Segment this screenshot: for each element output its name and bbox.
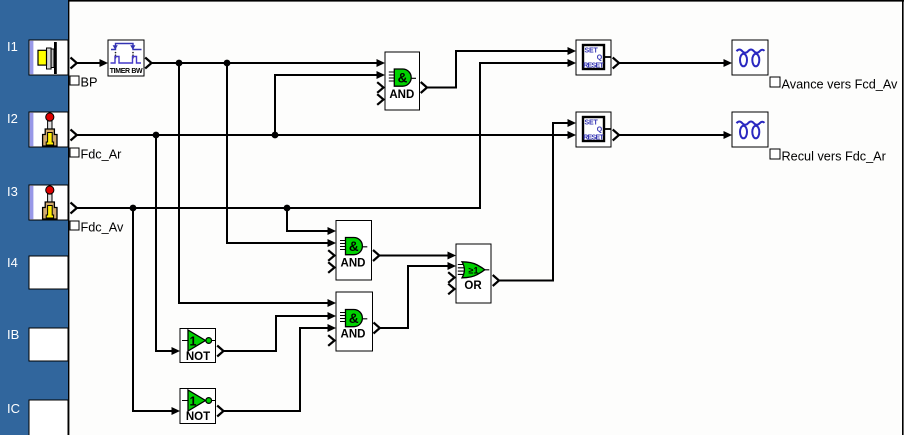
and-gate U1 unconnected input chevrons: [377, 82, 383, 105]
and-gate U2 unconnected input chevrons: [328, 250, 334, 273]
output coil O1: [732, 40, 768, 75]
svg-text:IB: IB: [7, 327, 19, 342]
node square for coil O2: [770, 149, 780, 159]
input I1 block: [29, 40, 68, 75]
wire AND1 out to SR1 SET: [427, 51, 569, 88]
arrowhead into SR1 SET: [568, 47, 577, 55]
and-gate U1 (top AND): [385, 52, 420, 110]
svg-text:I3: I3: [7, 184, 18, 199]
svg-text:RESET: RESET: [583, 135, 604, 142]
arrowhead into AND3 in1: [328, 299, 337, 307]
or-gate U4 output chevron: [493, 275, 499, 286]
junction row1 x227: [224, 60, 231, 67]
svg-text:Fdc_Av: Fdc_Av: [81, 221, 124, 235]
input I1 pushbutton icon: [38, 42, 57, 74]
input I3 output chevron: [71, 203, 77, 214]
sidebar/canvas divider line: [68, 0, 69, 435]
arrowhead into SR1 RESET: [568, 59, 577, 67]
node square for coil O1: [770, 77, 780, 87]
arrowhead into SR2 SET: [568, 119, 577, 127]
timer block TIMER BW: [108, 40, 144, 76]
and-gate U3 unconnected input chevron: [328, 335, 334, 346]
wire AND3 out to OR in2: [380, 266, 449, 328]
input I2 block: [29, 112, 68, 147]
svg-text:RESET: RESET: [583, 63, 604, 70]
svg-text:TIMER BW: TIMER BW: [110, 68, 143, 75]
wire AND2 out to OR in1: [380, 255, 450, 257]
arrowhead into coil O2: [724, 131, 733, 139]
arrowhead into AND2 in1: [328, 227, 337, 235]
node Fdc_Ar square: [70, 148, 79, 157]
svg-text:I1: I1: [7, 39, 18, 54]
arrowhead into OR in2: [448, 262, 457, 270]
latch SR1 output chevron: [613, 58, 619, 69]
junction row2 x275: [272, 132, 279, 139]
wire SR1 out to coil O1: [619, 62, 725, 64]
svg-text:Q: Q: [597, 127, 603, 134]
junction row2 x156: [153, 132, 160, 139]
latch SR2 output chevron: [613, 130, 619, 141]
not-gate U6 (lower NOT): [180, 389, 216, 424]
arrowhead into AND3 in3: [328, 324, 337, 332]
svg-text:AND: AND: [341, 258, 366, 270]
svg-text:I2: I2: [7, 111, 18, 126]
output coil O2: [732, 112, 768, 147]
canvas right frame line: [902, 0, 904, 435]
svg-text:&: &: [349, 239, 359, 254]
junction row1 x179: [176, 60, 183, 67]
svg-text:&: &: [398, 71, 408, 86]
arrowhead into SR2 RESET: [568, 131, 577, 139]
wire TIMER out to AND1 in1: [152, 62, 379, 64]
svg-text:NOT: NOT: [186, 411, 210, 423]
svg-text:I4: I4: [7, 255, 18, 270]
svg-text:Avance vers Fcd_Av: Avance vers Fcd_Av: [782, 78, 899, 92]
or-gate U4: [456, 244, 491, 303]
not-gate U6 output chevron: [217, 406, 223, 417]
svg-text:Fdc_Ar: Fdc_Ar: [81, 148, 123, 162]
svg-text:1: 1: [190, 334, 197, 348]
wire I3 out across and up to SR1 RESET: [77, 63, 569, 208]
and-gate U3 (bottom AND): [336, 292, 373, 351]
wire NOT1 out to AND3 in2: [224, 316, 329, 351]
junction row3 x287: [284, 205, 291, 212]
input I3 limit-switch icon: [43, 186, 57, 219]
input I3 block: [29, 185, 68, 220]
arrowhead into AND1 in2: [377, 71, 386, 79]
svg-text:1: 1: [190, 394, 197, 408]
wire v2: row2 junction down to NOT1 in: [156, 135, 173, 351]
input I4 block (empty): [29, 256, 68, 289]
input IC block (empty): [29, 400, 68, 435]
and-gate U2 (middle AND): [336, 221, 372, 281]
arrowhead into OR in1: [448, 252, 457, 260]
svg-text:IC: IC: [7, 401, 20, 416]
wire v5: row2 junction up to AND1 in2: [275, 75, 378, 135]
arrowhead into AND2 in2: [328, 239, 337, 247]
wire NOT2 out to AND3 in3: [224, 328, 329, 411]
and-gate U2 output chevron: [373, 250, 379, 261]
and-gate U1 output chevron: [421, 82, 427, 93]
and-gate U3 output chevron: [374, 323, 380, 334]
wire I1 out to TIMER in: [77, 62, 100, 64]
input I2 output chevron: [71, 130, 77, 141]
svg-text:Q: Q: [597, 55, 603, 62]
wire OR out to SR2 SET: [499, 123, 569, 281]
arrowhead into TIMER: [100, 59, 109, 67]
input I2 limit-switch icon: [43, 113, 57, 146]
svg-text:AND: AND: [389, 89, 414, 101]
sidebar input rail: [0, 0, 68, 435]
input IB block (empty): [29, 328, 68, 361]
arrowhead into coil O1: [724, 59, 733, 67]
wire I2 out to SR2 RESET: [77, 134, 569, 136]
wire v6: row3 junction down to AND2 in1: [287, 208, 329, 231]
arrowhead into AND3 in2: [328, 312, 337, 320]
not-gate U5 (upper NOT): [180, 329, 216, 364]
svg-text:NOT: NOT: [186, 351, 210, 363]
wire v3: row1 junction down to AND3 in1: [179, 63, 329, 303]
svg-text:BP: BP: [81, 76, 98, 90]
or-gate U4 unconnected input chevrons: [448, 272, 454, 294]
svg-text:AND: AND: [341, 329, 366, 341]
svg-text:Recul vers Fdc_Ar: Recul vers Fdc_Ar: [782, 150, 887, 164]
node BP square: [70, 76, 79, 85]
wire v1: row3 junction down to NOT2 in: [133, 208, 173, 411]
junction row3 x133: [130, 205, 137, 212]
canvas top frame line: [68, 0, 904, 2]
arrowhead into NOT2: [172, 407, 181, 415]
node Fdc_Av square: [70, 221, 79, 230]
wire v4: row1 junction down to AND2 in2: [227, 63, 329, 243]
latch SR2 (SET/RESET): [576, 112, 611, 147]
svg-text:≥1: ≥1: [469, 265, 479, 275]
arrowhead into NOT1: [172, 347, 181, 355]
svg-text:&: &: [349, 311, 359, 326]
input I1 output chevron: [71, 58, 77, 69]
not-gate U5 output chevron: [217, 346, 223, 357]
wire SR2 out to coil O2: [619, 134, 725, 136]
latch SR1 (SET/RESET): [576, 40, 611, 75]
timer output chevron: [145, 58, 151, 69]
svg-text:OR: OR: [464, 280, 482, 292]
arrowhead into AND1 in1: [377, 59, 386, 67]
